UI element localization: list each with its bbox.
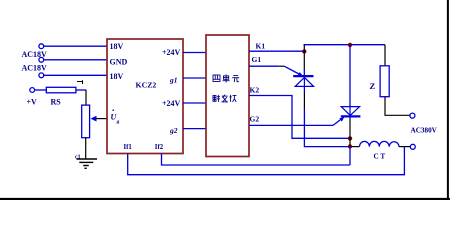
wire RS to corner bbox=[76, 89, 86, 91]
svg-text:G2: G2 bbox=[250, 115, 260, 124]
svg-text:18V: 18V bbox=[110, 42, 124, 51]
wire SCR V1 anode down bbox=[303, 86, 305, 92]
wiper arrow from Ug pin into potentiometer bbox=[96, 118, 107, 120]
right page rule bbox=[447, 0, 449, 200]
wire SCR V2 cathode down through nodes bbox=[349, 118, 351, 120]
label 四单元 (four unit) row bbox=[213, 75, 239, 83]
node K1 junction dot bbox=[302, 49, 306, 53]
wire G1 output bbox=[249, 65, 279, 67]
svg-text:GND: GND bbox=[110, 57, 128, 66]
potentiometer RP body bbox=[82, 105, 90, 138]
wire into SCR V1 cathode bbox=[303, 69, 305, 76]
svg-text:AC18V: AC18V bbox=[22, 63, 48, 72]
svg-text:c1: c1 bbox=[75, 155, 81, 161]
wire CT node to inductor (black) bbox=[352, 146, 360, 148]
svg-text:G1: G1 bbox=[252, 55, 262, 64]
wire +24V upper KCZ2 to trigger board bbox=[183, 52, 206, 54]
svg-text:g2: g2 bbox=[169, 126, 178, 135]
ground bbox=[77, 159, 98, 168]
thyristor V1 (pointing up) bbox=[293, 76, 313, 86]
node CT junction dot bbox=[348, 144, 352, 148]
trigger board box U2 (four-unit trigger board) bbox=[206, 35, 249, 157]
wire inductor to output terminal (black) bbox=[399, 146, 410, 148]
svg-text:C T: C T bbox=[374, 153, 386, 161]
svg-text:+V: +V bbox=[27, 98, 38, 107]
resistor RS bbox=[46, 87, 76, 93]
svg-text:18V: 18V bbox=[110, 72, 124, 81]
wire corner down to potentiometer bbox=[85, 90, 87, 105]
svg-text:K2: K2 bbox=[250, 86, 260, 95]
node rail junction dot bbox=[348, 43, 352, 47]
svg-text:K1: K1 bbox=[256, 42, 266, 51]
svg-text:KCZ2: KCZ2 bbox=[136, 80, 157, 89]
bottom page rule bbox=[0, 198, 450, 200]
svg-text:g1: g1 bbox=[169, 75, 178, 84]
wire rail down to SCR V2 bbox=[349, 45, 351, 107]
node K2 junction dot bbox=[348, 136, 352, 140]
KCZ2 module box U1 bbox=[107, 39, 183, 154]
terminal bottom 18V bbox=[39, 73, 44, 78]
terminal AC380V lower bbox=[410, 144, 415, 149]
thyristor V2 (pointing down) bbox=[341, 107, 361, 117]
wire +V to RS bbox=[35, 89, 47, 91]
wire G2 output bbox=[249, 124, 333, 126]
wire terminal3 to 18V pin bbox=[44, 74, 107, 76]
label 触发板 (trigger board) row bbox=[213, 95, 236, 102]
wire top AC rail bbox=[304, 44, 386, 46]
inductor CT coil bbox=[360, 141, 400, 146]
wire +24V lower KCZ2 to trigger board bbox=[183, 102, 206, 104]
wire g2 KCZ2 to trigger board bbox=[183, 128, 206, 130]
terminal +V bbox=[30, 88, 35, 93]
wire G1 black segment bbox=[279, 65, 285, 67]
wire K1 output bbox=[249, 50, 303, 52]
wire If2 feedback bbox=[162, 154, 351, 166]
svg-text:Z: Z bbox=[370, 81, 376, 91]
wire terminal1 to 18V pin bbox=[44, 45, 107, 47]
wire rail to K1 node (black) bbox=[303, 45, 305, 69]
terminal AC18V middle bbox=[39, 57, 44, 62]
pin label Ug bbox=[111, 109, 120, 125]
wire g1 KCZ2 to trigger board bbox=[183, 77, 206, 79]
svg-text:If2: If2 bbox=[155, 144, 164, 151]
wire G1 gate diagonal with arrow into SCR V1 bbox=[284, 66, 299, 74]
tick mark above corner bbox=[77, 80, 83, 84]
terminal AC380V upper bbox=[410, 113, 415, 118]
terminal AC18V top bbox=[39, 44, 44, 49]
wire terminal2 to GND pin bbox=[44, 59, 107, 61]
wire SCR V1 anode to CT node bbox=[304, 146, 348, 148]
svg-text:AC380V: AC380V bbox=[411, 127, 438, 135]
load resistor Z bbox=[384, 45, 386, 66]
wire K2 output bbox=[249, 96, 348, 139]
wire potentiometer bottom to ground bbox=[85, 138, 87, 159]
svg-text:+24V: +24V bbox=[162, 99, 181, 108]
svg-text:If1: If1 bbox=[124, 144, 133, 151]
svg-text:+24V: +24V bbox=[162, 48, 181, 57]
svg-text:g: g bbox=[116, 119, 120, 125]
wire If1 feedback bbox=[128, 147, 405, 175]
wire Z to terminal (black) bbox=[385, 97, 410, 116]
svg-text:RS: RS bbox=[51, 98, 62, 107]
wire G2 gate diagonal with arrow into SCR V2 bbox=[333, 120, 341, 126]
